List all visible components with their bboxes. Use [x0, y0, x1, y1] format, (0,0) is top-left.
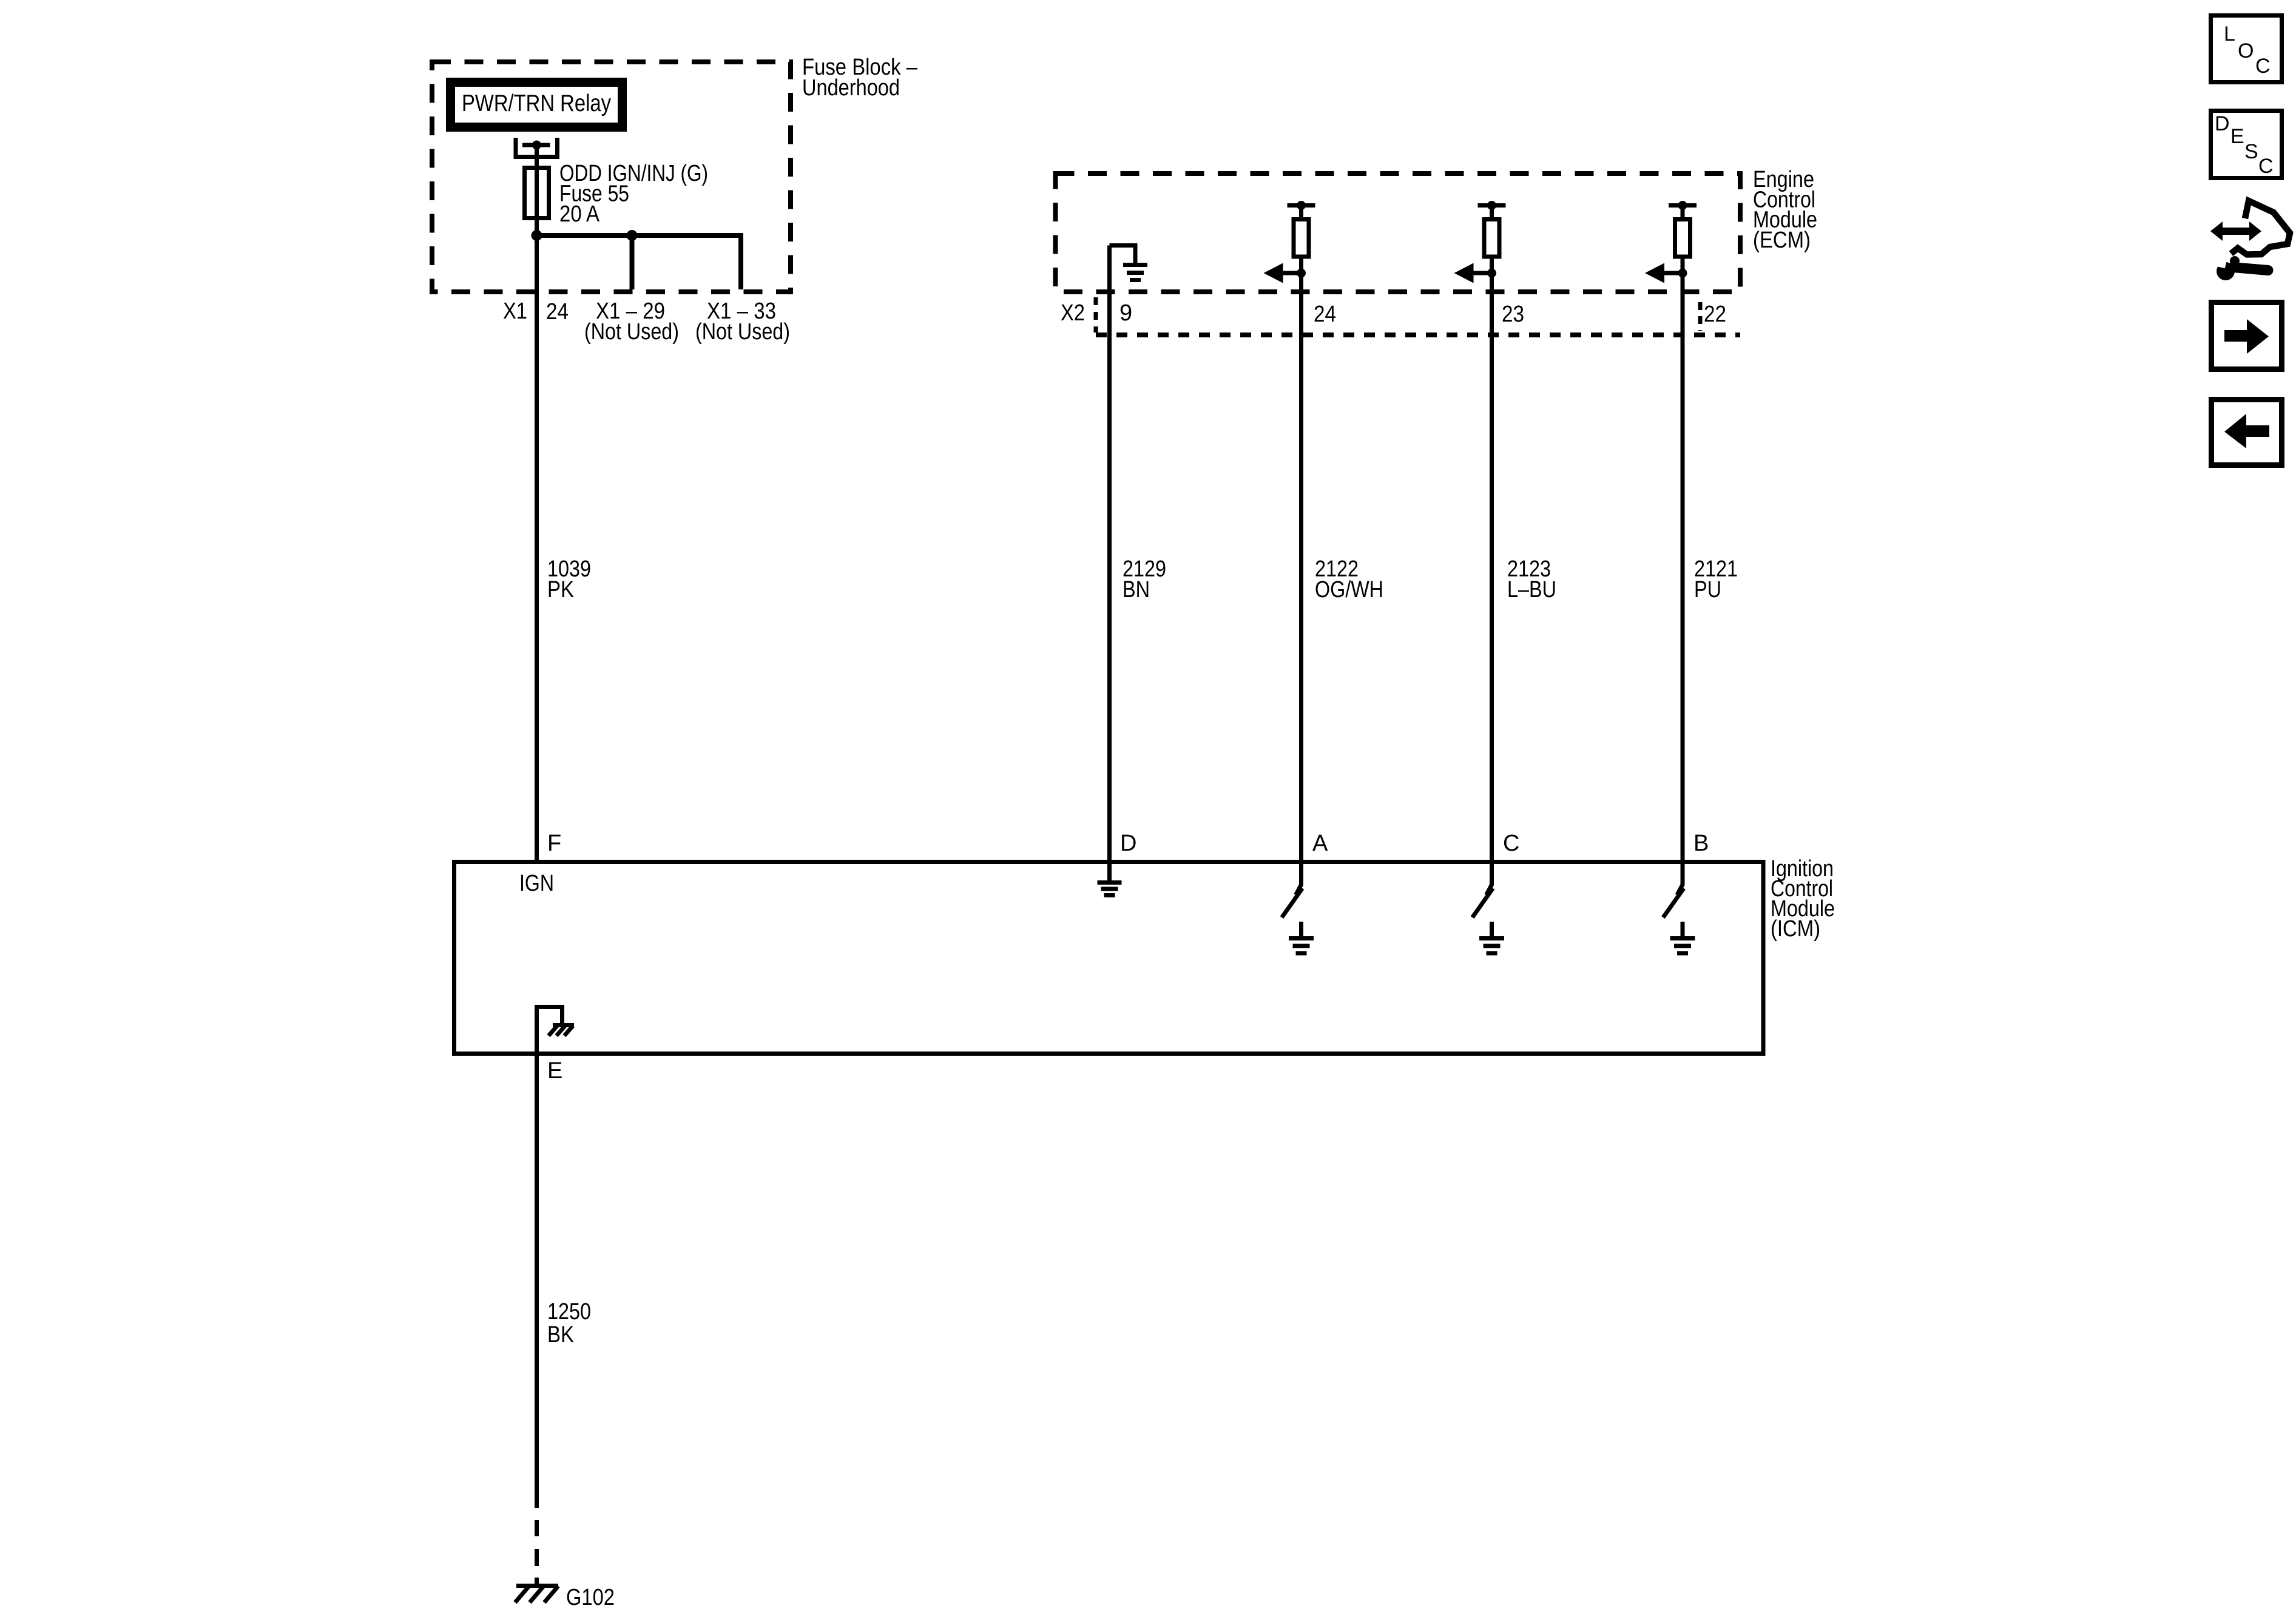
connector X2 bottom dotted outline [1096, 333, 1740, 337]
resistor in ECM column 23 [1478, 206, 1506, 257]
svg-text:BN: BN [1123, 577, 1150, 603]
svg-text:C: C [2258, 155, 2274, 178]
label Fuse Block Underhood [802, 55, 918, 101]
wire 1250 BK from ICM pin E to G102 [535, 1054, 539, 1508]
switch inside ICM at pin A [1282, 864, 1303, 936]
arrow output at column 22 [1663, 271, 1683, 275]
fuse block underhood dashed box [432, 62, 791, 292]
svg-text:L: L [2224, 22, 2235, 46]
pin label X1 - 33 (Not Used) [695, 299, 790, 345]
svg-text:20 A: 20 A [559, 201, 600, 227]
pin label X1 - 29 (Not Used) [584, 299, 679, 345]
arrow output at column 23 [1472, 271, 1492, 275]
svg-text:1250: 1250 [547, 1299, 591, 1325]
ground symbol inside ICM below pin C switch [1479, 939, 1504, 954]
svg-text:C: C [2255, 55, 2271, 78]
ICM Ignition Control Module box [454, 862, 1764, 1054]
icon forward arrow box [2212, 303, 2282, 370]
wire 2123 L-BU from ECM pin 23 to ICM pin C [1490, 257, 1494, 862]
svg-text:O: O [2238, 39, 2254, 62]
svg-text:(Not Used): (Not Used) [695, 319, 790, 345]
svg-text:BK: BK [547, 1322, 574, 1348]
svg-text:IGN: IGN [519, 871, 554, 896]
svg-text:22: 22 [1704, 302, 1726, 327]
svg-text:X1: X1 [503, 299, 527, 324]
svg-text:(ECM): (ECM) [1753, 228, 1811, 253]
relay K1 PWR/TRN Relay box [451, 83, 623, 127]
svg-text:(ICM): (ICM) [1771, 916, 1820, 942]
node junction at fuse output [532, 230, 542, 241]
svg-text:9: 9 [1119, 300, 1132, 326]
svg-text:C: C [1503, 831, 1519, 856]
label wire 1250 BK [547, 1299, 591, 1348]
icon back arrow box [2212, 400, 2282, 465]
arrow output at column 24 [1281, 271, 1302, 275]
label wire 1039 PK [547, 556, 591, 603]
label wire 2121 PU [1694, 556, 1738, 603]
svg-text:B: B [1693, 831, 1709, 856]
wire 1039 PK from fuse block to ICM pin F [535, 235, 539, 862]
wire 2122 OG/WH from ECM pin 24 to ICM pin A [1299, 257, 1303, 862]
chassis ground symbol inside ICM at pin E [537, 1007, 575, 1054]
svg-text:PWR/TRN Relay: PWR/TRN Relay [462, 90, 612, 116]
resistor in ECM column 22 [1669, 206, 1697, 257]
svg-text:OG/WH: OG/WH [1315, 577, 1383, 603]
ground G102 [515, 1586, 558, 1603]
svg-text:24: 24 [1314, 302, 1336, 327]
wire 2121 PU from ECM pin 22 to ICM pin B [1681, 257, 1685, 862]
label Engine Control Module (ECM) [1753, 167, 1817, 253]
icon diagnostic wrench with double arrow [2210, 201, 2290, 280]
node relay contact dot [532, 141, 541, 150]
ground symbol inside ICM at pin D [1098, 864, 1122, 896]
svg-text:PU: PU [1694, 577, 1721, 603]
ground symbol inside ICM below pin A switch [1289, 939, 1314, 954]
svg-text:(Not Used): (Not Used) [584, 319, 679, 345]
svg-text:S: S [2244, 140, 2258, 163]
svg-text:E: E [2230, 125, 2244, 148]
wire relay to fuse [535, 145, 539, 235]
label wire 2122 OG/WH [1315, 556, 1383, 603]
label Ignition Control Module (ICM) [1771, 856, 1835, 942]
connector dotted separator right [1698, 302, 1703, 331]
svg-text:23: 23 [1502, 302, 1524, 327]
switch inside ICM at pin B [1663, 864, 1684, 936]
svg-text:D: D [2215, 112, 2230, 135]
svg-text:E: E [547, 1058, 562, 1084]
svg-text:Underhood: Underhood [802, 75, 900, 101]
ground symbol inside ICM below pin B switch [1670, 939, 1695, 954]
switch inside ICM at pin C [1473, 864, 1493, 936]
label fuse ODD IGN/INJ (G) Fuse 55 20 A [559, 161, 708, 227]
svg-text:F: F [547, 831, 561, 856]
wire 2129 BN from ECM pin 9 to ICM pin D [1107, 246, 1112, 862]
svg-text:24: 24 [546, 299, 569, 325]
icon DESC box [2211, 111, 2282, 178]
node junction X1-29 [627, 230, 638, 241]
wire stub X1-29 [630, 235, 635, 289]
fuse F55 [525, 168, 549, 218]
relay contact symbol [516, 138, 558, 157]
label wire 2129 BN [1123, 556, 1166, 603]
svg-text:G102: G102 [566, 1585, 615, 1610]
resistor in ECM column 24 [1288, 206, 1315, 257]
ground symbol inside ECM at pin 9 [1110, 246, 1148, 280]
svg-text:D: D [1120, 831, 1136, 856]
svg-text:X2: X2 [1061, 300, 1085, 326]
wire fuse output bus to X1-29 and X1-33 [537, 235, 741, 289]
label wire 2123 L-BU [1507, 556, 1556, 603]
icon LOC box [2211, 16, 2282, 83]
connector X2 separator dash [1094, 297, 1098, 333]
svg-text:L–BU: L–BU [1507, 577, 1556, 603]
svg-text:A: A [1312, 831, 1328, 856]
svg-text:PK: PK [547, 577, 574, 603]
ECM dashed box [1056, 174, 1741, 292]
